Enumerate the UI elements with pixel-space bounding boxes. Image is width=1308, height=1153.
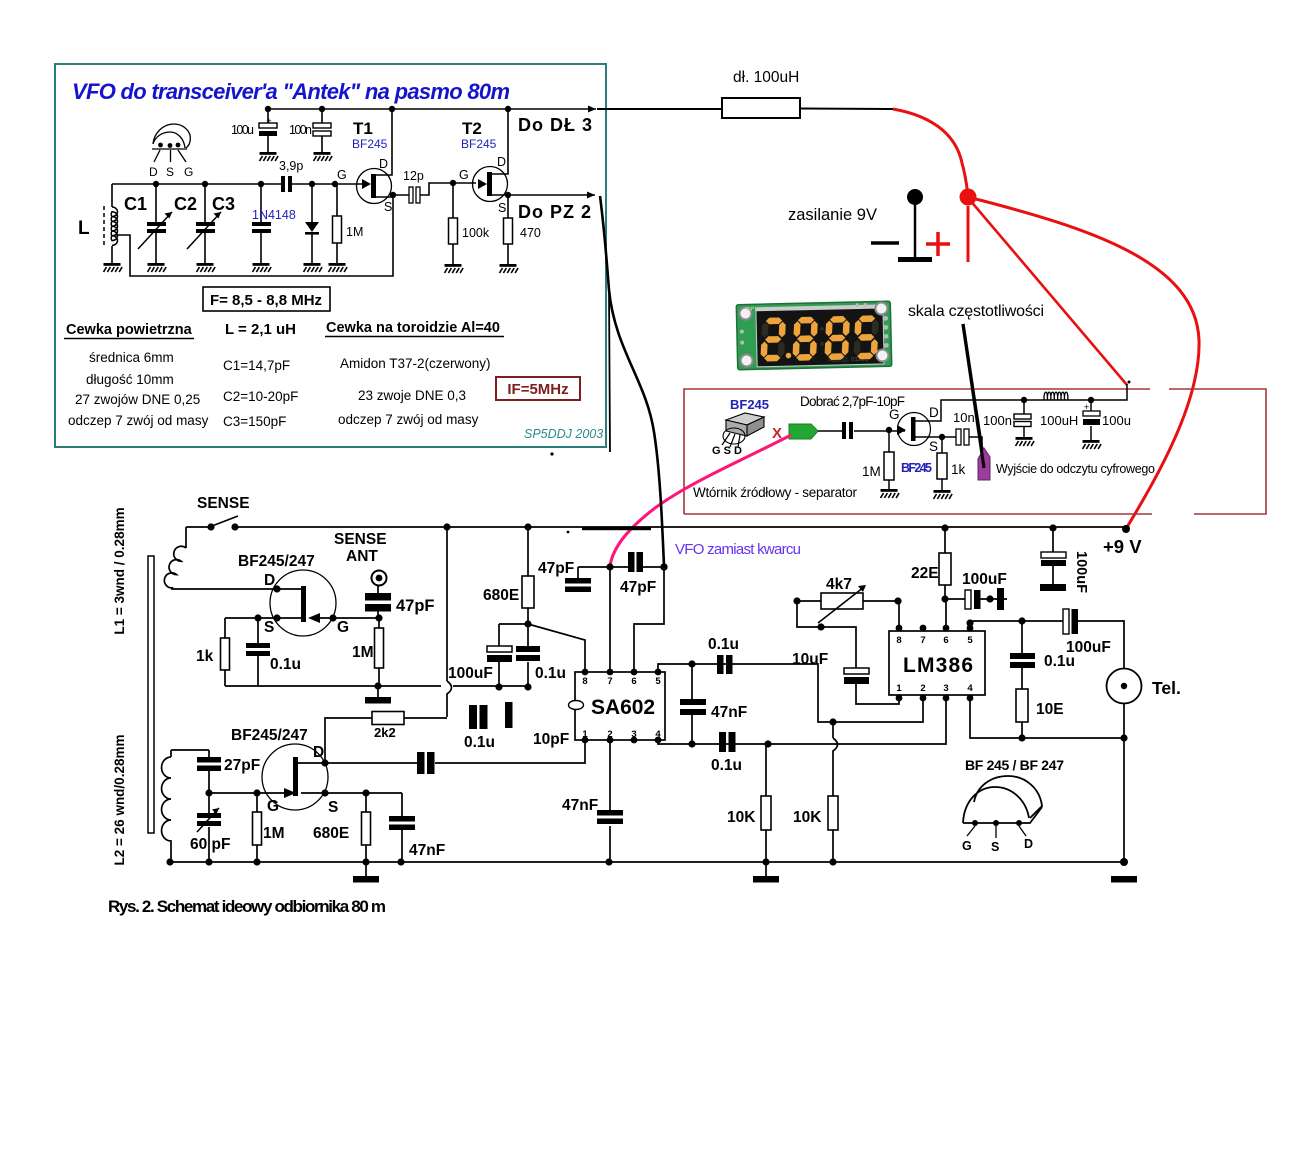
svg-text:G S D: G S D xyxy=(712,445,742,457)
svg-text:C2=10-20pF: C2=10-20pF xyxy=(223,389,298,404)
svg-text:D: D xyxy=(149,165,158,179)
svg-text:Cewka na toroidzie Al=40: Cewka na toroidzie Al=40 xyxy=(326,320,500,336)
svg-text:L2 = 26 wnd/0.28mm: L2 = 26 wnd/0.28mm xyxy=(112,735,127,866)
svg-text:BF245: BF245 xyxy=(730,397,769,412)
svg-text:SA602: SA602 xyxy=(591,696,655,719)
svg-text:10n: 10n xyxy=(953,410,975,425)
svg-text:27 zwojów DNE 0,25: 27 zwojów DNE 0,25 xyxy=(75,392,200,407)
svg-text:10K: 10K xyxy=(793,809,822,826)
svg-text:47nF: 47nF xyxy=(562,797,598,814)
svg-text:5: 5 xyxy=(655,676,661,687)
svg-text:+: + xyxy=(1084,402,1089,412)
svg-text:+9 V: +9 V xyxy=(1103,536,1142,557)
svg-text:1M: 1M xyxy=(346,225,363,239)
svg-text:BF245/247: BF245/247 xyxy=(231,727,308,744)
svg-text:L: L xyxy=(78,218,90,239)
svg-text:L1 = 3wnd / 0.28mm: L1 = 3wnd / 0.28mm xyxy=(112,507,127,634)
svg-text:23 zwoje DNE 0,3: 23 zwoje DNE 0,3 xyxy=(358,388,466,403)
svg-text:6: 6 xyxy=(631,676,636,687)
svg-text:S: S xyxy=(166,165,174,179)
svg-text:Wyjście do odczytu cyfrowego: Wyjście do odczytu cyfrowego xyxy=(996,462,1155,476)
svg-text:T1: T1 xyxy=(353,119,373,138)
svg-text:zasilanie 9V: zasilanie 9V xyxy=(788,206,877,224)
svg-text:D: D xyxy=(379,157,388,171)
svg-text:Do DŁ 3: Do DŁ 3 xyxy=(518,115,593,135)
svg-text:0.1u: 0.1u xyxy=(1044,653,1075,670)
svg-text:680E: 680E xyxy=(483,587,519,604)
svg-text:10pF: 10pF xyxy=(533,731,569,748)
svg-text:L = 2,1 uH: L = 2,1 uH xyxy=(225,321,296,338)
svg-text:BF245: BF245 xyxy=(461,137,497,151)
svg-text:2: 2 xyxy=(920,683,925,694)
svg-text:BF 245 / BF 247: BF 245 / BF 247 xyxy=(965,757,1064,773)
svg-text:D: D xyxy=(313,744,324,761)
svg-text:10K: 10K xyxy=(727,809,756,826)
svg-text:0.1u: 0.1u xyxy=(708,636,739,653)
svg-text:1M: 1M xyxy=(352,644,374,661)
svg-text:C1=14,7pF: C1=14,7pF xyxy=(223,358,290,373)
svg-text:470: 470 xyxy=(520,226,541,240)
svg-text:4k7: 4k7 xyxy=(826,576,852,593)
svg-text:47nF: 47nF xyxy=(711,704,747,721)
svg-text:T2: T2 xyxy=(462,119,482,138)
svg-text:7: 7 xyxy=(920,635,925,646)
svg-text:dł. 100uH: dł. 100uH xyxy=(733,69,799,86)
svg-text:0.1u: 0.1u xyxy=(711,757,742,774)
svg-text:47pF: 47pF xyxy=(538,560,574,577)
svg-text:G: G xyxy=(184,165,193,179)
svg-text:BF245/247: BF245/247 xyxy=(238,553,315,570)
svg-text:10uF: 10uF xyxy=(792,651,828,668)
svg-text:2k2: 2k2 xyxy=(374,725,396,740)
svg-text:ANT: ANT xyxy=(346,548,378,565)
svg-text:G: G xyxy=(459,168,469,182)
svg-text:SENSE: SENSE xyxy=(197,495,250,512)
svg-text:średnica 6mm: średnica 6mm xyxy=(89,350,174,365)
svg-text:47nF: 47nF xyxy=(409,842,445,859)
svg-text:5: 5 xyxy=(967,635,973,646)
svg-text:D: D xyxy=(497,155,506,169)
svg-text:+: + xyxy=(266,116,271,126)
svg-text:S: S xyxy=(328,799,338,816)
svg-text:47pF: 47pF xyxy=(620,579,656,596)
svg-text:skala częstotliwości: skala częstotliwości xyxy=(908,303,1044,320)
svg-text:C1: C1 xyxy=(124,194,147,214)
svg-text:BF245: BF245 xyxy=(352,137,388,151)
svg-text:100k: 100k xyxy=(462,226,490,240)
svg-text:SP5DDJ 2003: SP5DDJ 2003 xyxy=(524,427,603,441)
svg-text:G: G xyxy=(889,407,900,422)
svg-text:BF245: BF245 xyxy=(901,461,932,475)
svg-text:D: D xyxy=(1024,837,1033,851)
svg-text:6: 6 xyxy=(943,635,948,646)
svg-text:3: 3 xyxy=(943,683,948,694)
svg-text:100uF: 100uF xyxy=(448,665,493,682)
svg-text:F= 8,5 - 8,8 MHz: F= 8,5 - 8,8 MHz xyxy=(210,292,322,309)
svg-text:IF=5MHz: IF=5MHz xyxy=(507,381,568,398)
svg-text:1N4148: 1N4148 xyxy=(252,208,296,222)
svg-text:S: S xyxy=(991,840,999,854)
svg-text:4: 4 xyxy=(967,683,973,694)
svg-text:D: D xyxy=(264,572,275,589)
svg-text:100uF: 100uF xyxy=(962,571,1007,588)
svg-text:1k: 1k xyxy=(951,462,966,477)
svg-text:100uF: 100uF xyxy=(1073,551,1089,593)
svg-text:Amidon T37-2(czerwony): Amidon T37-2(czerwony) xyxy=(340,356,491,371)
svg-text:S: S xyxy=(384,200,392,214)
svg-text:SENSE: SENSE xyxy=(334,531,387,548)
svg-text:Rys. 2. Schemat ideowy odbiorn: Rys. 2. Schemat ideowy odbiornika 80 m xyxy=(108,897,386,916)
svg-text:27pF: 27pF xyxy=(224,757,260,774)
svg-text:60 pF: 60 pF xyxy=(190,836,230,853)
svg-text:odczep 7 zwój od masy: odczep 7 zwój od masy xyxy=(68,413,209,428)
svg-text:G: G xyxy=(337,619,349,636)
svg-text:05P1: 05P1 xyxy=(745,306,757,312)
svg-text:100u: 100u xyxy=(1102,413,1131,428)
svg-text:680E: 680E xyxy=(313,825,349,842)
svg-text:C3: C3 xyxy=(212,194,235,214)
svg-text:S: S xyxy=(498,201,506,215)
svg-text:100n: 100n xyxy=(289,123,312,137)
svg-text:3,9p: 3,9p xyxy=(279,159,303,173)
svg-text:100n: 100n xyxy=(983,413,1012,428)
svg-text:0.1u: 0.1u xyxy=(535,665,566,682)
svg-text:100uH: 100uH xyxy=(1040,413,1078,428)
svg-text:G: G xyxy=(267,798,279,815)
svg-text:47pF: 47pF xyxy=(396,597,435,615)
svg-text:1M: 1M xyxy=(862,464,881,479)
svg-text:Tel.: Tel. xyxy=(1152,678,1181,698)
svg-text:12p: 12p xyxy=(403,169,424,183)
svg-text:1: 1 xyxy=(896,683,902,694)
svg-text:Do PZ 2: Do PZ 2 xyxy=(518,202,592,222)
svg-text:8: 8 xyxy=(896,635,901,646)
svg-text:S: S xyxy=(264,619,274,636)
svg-text:8: 8 xyxy=(582,676,587,687)
svg-text:C2: C2 xyxy=(174,194,197,214)
svg-text:10E: 10E xyxy=(1036,701,1064,718)
svg-text:1k: 1k xyxy=(196,648,214,665)
svg-text:VFO zamiast kwarcu: VFO zamiast kwarcu xyxy=(675,541,801,558)
svg-text:G: G xyxy=(337,168,347,182)
svg-text:VFO do transceiver'a "Antek" n: VFO do transceiver'a "Antek" na pasmo 80… xyxy=(72,79,510,104)
svg-text:1M: 1M xyxy=(263,825,285,842)
svg-text:G: G xyxy=(962,839,972,853)
svg-text:odczep 7 zwój od masy: odczep 7 zwój od masy xyxy=(338,412,479,427)
svg-text:S: S xyxy=(929,439,938,454)
svg-text:0.1u: 0.1u xyxy=(464,734,495,751)
svg-text:D: D xyxy=(929,405,939,420)
svg-text:22E: 22E xyxy=(911,565,939,582)
svg-text:100u: 100u xyxy=(231,123,254,137)
svg-text:0.1u: 0.1u xyxy=(270,656,301,673)
svg-text:7: 7 xyxy=(607,676,612,687)
svg-text:C3=150pF: C3=150pF xyxy=(223,414,286,429)
svg-text:LM386: LM386 xyxy=(903,654,973,677)
svg-text:Wtórnik źródłowy - separator: Wtórnik źródłowy - separator xyxy=(693,485,858,500)
svg-text:długość 10mm: długość 10mm xyxy=(86,372,174,387)
svg-text:Cewka powietrzna: Cewka powietrzna xyxy=(66,322,193,338)
